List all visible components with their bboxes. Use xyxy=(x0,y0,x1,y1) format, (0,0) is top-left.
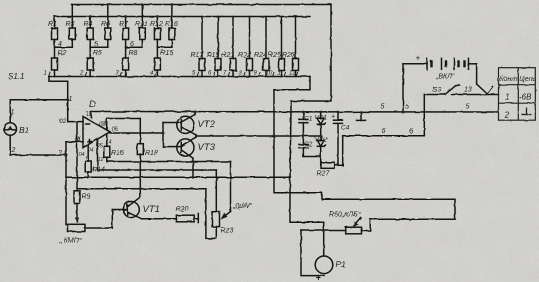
staircase B ground net down xyxy=(290,112,324,231)
svg-text:Цепь: Цепь xyxy=(520,76,537,83)
svg-text:5: 5 xyxy=(466,104,470,111)
svg-text:R16: R16 xyxy=(165,21,178,28)
wire B1 plus to node 1 xyxy=(10,99,67,101)
resistor R7 xyxy=(123,17,129,48)
top bus line 1 xyxy=(72,4,332,6)
op-amp pin 12 stub xyxy=(97,139,99,170)
svg-text:13: 13 xyxy=(464,87,472,94)
top bus line 2 xyxy=(55,16,311,18)
svg-text:S1.1: S1.1 xyxy=(8,72,24,81)
resistor R12 xyxy=(154,17,160,48)
svg-text:2: 2 xyxy=(79,71,84,77)
transistor VT2 xyxy=(177,112,196,135)
resistor R9 xyxy=(74,191,80,204)
svg-text:C2: C2 xyxy=(304,141,313,148)
svg-text:04: 04 xyxy=(79,152,85,158)
capacitor C2 xyxy=(299,136,321,157)
svg-text:11: 11 xyxy=(86,112,92,118)
wire VT2-VT3 joint xyxy=(195,135,197,137)
text labels xyxy=(48,21,295,59)
svg-text:P1: P1 xyxy=(336,260,346,269)
op-amp pin 11 stub xyxy=(90,112,92,118)
wire battery minus down to contact xyxy=(476,64,478,84)
svg-text:В1: В1 xyxy=(19,125,30,135)
capacitor C1 xyxy=(299,112,308,136)
svg-text:R11: R11 xyxy=(135,21,147,28)
wire VT base bracket xyxy=(163,123,177,147)
svg-text:2: 2 xyxy=(11,147,16,154)
wire top line right drop to 5-net xyxy=(291,5,331,113)
svg-text:08: 08 xyxy=(99,122,106,128)
svg-text:„ВКЛ“: „ВКЛ“ xyxy=(435,74,455,81)
battery GB xyxy=(403,58,477,69)
op-amp D triangle xyxy=(83,117,110,148)
resistor R22 xyxy=(247,17,253,77)
svg-text:VT3: VT3 xyxy=(198,142,216,153)
svg-text:Конт: Конт xyxy=(500,76,518,83)
wire B1 minus (node 2) xyxy=(10,154,66,156)
wire bus left step down to op-amp input xyxy=(49,77,68,122)
capacitor plate end xyxy=(197,214,199,223)
svg-text:+: + xyxy=(416,54,421,63)
svg-text:12: 12 xyxy=(98,157,104,163)
potentiometer R50 KLB xyxy=(324,218,362,234)
resistor R19 xyxy=(215,17,221,77)
wire net 6 drop xyxy=(342,136,344,166)
wire L2 pin12 to R23 top xyxy=(98,170,217,212)
capacitor C4 xyxy=(334,112,343,165)
svg-text:R4: R4 xyxy=(84,21,93,28)
svg-text:2: 2 xyxy=(504,110,510,120)
svg-text:R18: R18 xyxy=(145,150,158,157)
resistor R16 xyxy=(157,5,175,48)
wire L3 common rail xyxy=(66,176,290,178)
resistor R4 xyxy=(87,17,93,48)
svg-text:1: 1 xyxy=(69,96,73,103)
wire inv input 02 xyxy=(68,121,83,123)
resistor R11 xyxy=(126,5,146,48)
svg-text:R24: R24 xyxy=(254,52,267,59)
wire net 5 long horizontal xyxy=(91,111,498,114)
resistor R26 xyxy=(293,17,299,77)
svg-text:R7: R7 xyxy=(119,21,129,28)
svg-text:1: 1 xyxy=(44,71,47,77)
svg-text:R14: R14 xyxy=(92,167,105,174)
wiper arrow into KMP pot xyxy=(75,204,79,224)
bus tick marks xyxy=(49,73,298,77)
svg-text:14: 14 xyxy=(106,140,112,146)
svg-text:4: 4 xyxy=(58,41,62,48)
diode VD1 xyxy=(317,112,325,136)
svg-text:R20: R20 xyxy=(176,206,189,213)
wire node2 vertical to pot KMP xyxy=(65,142,67,225)
svg-text:R1: R1 xyxy=(48,21,57,28)
transistor VT3 xyxy=(177,137,196,177)
wire emitter node to diode mid rail xyxy=(196,135,321,137)
svg-text:R50„КЛБ“: R50„КЛБ“ xyxy=(329,212,361,219)
op-amp pin 14 stub and resistor R16b xyxy=(104,134,110,162)
op-amp pin 9 stub and resistor R14 xyxy=(85,145,91,177)
svg-text:R8: R8 xyxy=(129,50,138,57)
svg-text:12: 12 xyxy=(289,71,296,77)
op-amp pin labels xyxy=(60,112,119,163)
battery B1 xyxy=(4,100,17,155)
potentiometer KMP xyxy=(68,210,124,232)
transistor VT1 xyxy=(123,189,141,219)
svg-text:R9: R9 xyxy=(82,194,91,201)
svg-text:02: 02 xyxy=(60,119,67,125)
svg-text:2: 2 xyxy=(57,150,62,157)
svg-text:6: 6 xyxy=(130,41,134,48)
potentiometer R23 xyxy=(212,212,220,227)
resistor R27 xyxy=(321,162,343,168)
svg-text:6: 6 xyxy=(382,128,386,135)
svg-text:S3: S3 xyxy=(432,85,442,94)
svg-text:„ КМП“: „ КМП“ xyxy=(59,238,82,245)
wire bus right step to node down xyxy=(274,77,310,90)
svg-text:05: 05 xyxy=(97,143,104,149)
svg-text:VD1: VD1 xyxy=(315,115,328,122)
svg-text:R3: R3 xyxy=(66,21,75,28)
resistor R24 xyxy=(263,17,269,77)
divider bottom bus xyxy=(49,76,310,78)
ground tap on net 5 xyxy=(357,112,366,120)
svg-text:06: 06 xyxy=(112,127,119,133)
svg-text:5: 5 xyxy=(381,104,385,111)
wire L4 collector rail to R23 bottom xyxy=(77,189,216,239)
wire L1 R16b to R23 wiper xyxy=(107,162,231,220)
svg-text:5: 5 xyxy=(94,41,98,48)
resistor R8 xyxy=(123,47,129,76)
resistor R21 xyxy=(230,17,236,77)
connector table xyxy=(499,68,536,121)
contact 13 check mark xyxy=(477,84,493,94)
svg-text:11: 11 xyxy=(277,71,283,77)
wire S3 down to net 6 xyxy=(423,95,425,136)
svg-text:D: D xyxy=(89,99,96,109)
svg-text:R22: R22 xyxy=(238,52,251,59)
ground symbol in table xyxy=(522,108,532,115)
svg-text:VT2: VT2 xyxy=(198,119,216,130)
svg-text:+: + xyxy=(331,114,335,121)
svg-text:R5: R5 xyxy=(93,50,102,57)
svg-text:VT1: VT1 xyxy=(143,204,160,215)
diode VD2 xyxy=(317,136,325,165)
svg-text:R23: R23 xyxy=(221,228,234,235)
svg-text:R21: R21 xyxy=(222,52,235,59)
resistor R3 xyxy=(55,5,76,48)
svg-text:9: 9 xyxy=(86,156,89,162)
svg-text:R27: R27 xyxy=(317,171,331,178)
svg-text:R26: R26 xyxy=(282,52,295,59)
resistor R6 xyxy=(90,5,111,48)
svg-text:C4: C4 xyxy=(341,125,350,132)
svg-text:6: 6 xyxy=(410,129,414,136)
resistor R18 xyxy=(137,119,143,189)
svg-text:R6: R6 xyxy=(101,21,110,28)
svg-text:Ø: Ø xyxy=(74,135,82,144)
resistor R25 xyxy=(279,17,285,77)
svg-text:5: 5 xyxy=(405,104,409,111)
svg-text:R2: R2 xyxy=(58,50,67,57)
resistor R15 xyxy=(154,47,160,76)
svg-text:R12: R12 xyxy=(150,21,163,28)
svg-text:R15: R15 xyxy=(161,50,174,57)
svg-text:1: 1 xyxy=(11,109,15,116)
resistor R5 xyxy=(87,47,93,76)
svg-text:10: 10 xyxy=(266,71,273,77)
staircase A from VT emitters to R50 xyxy=(274,90,455,231)
resistor R2 xyxy=(52,47,58,76)
op-amp output 06 wire xyxy=(110,132,163,134)
svg-text:R17: R17 xyxy=(191,52,205,59)
wire non-inv input xyxy=(66,141,83,143)
resistor R17 xyxy=(199,17,205,77)
wire pin4 vertical to R9 xyxy=(76,122,78,191)
svg-text:R25: R25 xyxy=(268,52,281,59)
svg-text:R19: R19 xyxy=(207,52,220,59)
svg-text:„0μW“: „0μW“ xyxy=(232,203,253,210)
meter P1 xyxy=(301,230,333,276)
svg-text:1: 1 xyxy=(505,92,510,102)
svg-text:C1: C1 xyxy=(304,116,313,123)
op-amp pin 8 wire to R18 xyxy=(107,119,141,130)
switch S3 xyxy=(424,85,498,95)
svg-text:04: 04 xyxy=(88,148,94,154)
resistor R20 xyxy=(142,215,199,222)
resistor R1 xyxy=(52,17,58,48)
wire battery plus down to net5 xyxy=(402,64,404,112)
svg-text:-6В: -6В xyxy=(519,93,532,102)
svg-text:VD2: VD2 xyxy=(315,137,328,144)
wire net 6 horizontal xyxy=(343,135,425,137)
svg-text:R16: R16 xyxy=(111,150,124,157)
svg-text:+: + xyxy=(316,273,322,282)
